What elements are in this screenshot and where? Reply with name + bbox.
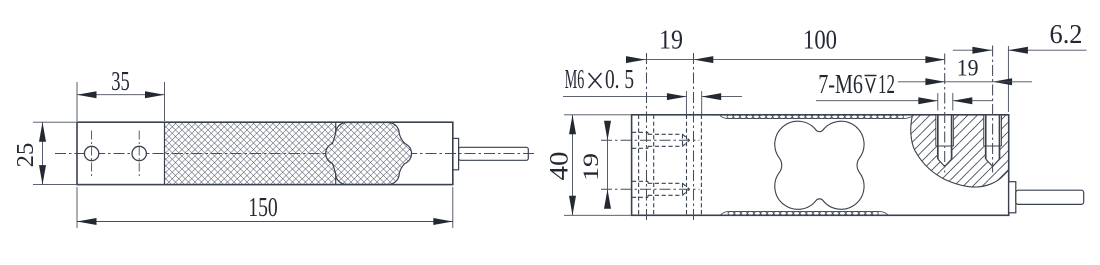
left view: centerline (55, 153, 537, 155)
right hole 2: centerline (992, 46, 994, 173)
left block vertical hole 2: dashed walls (686, 115, 688, 216)
svg-text:0. 5: 0. 5 (605, 64, 634, 94)
left block vertical hole 1: dashed walls (638, 115, 640, 216)
dimension 6.2: dim line + arrows (953, 49, 992, 51)
svg-text:12: 12 (878, 69, 895, 99)
svg-text:100: 100 (803, 24, 837, 54)
hole A vertical centerline (91, 131, 93, 177)
dimension 25: dim line + arrows (42, 122, 44, 184)
svg-text:40: 40 (544, 152, 573, 181)
svg-text:6.2: 6.2 (1050, 19, 1083, 49)
top serrated strip scallops (727, 115, 904, 119)
dimension 19 vertical: dim line + outside arrows (607, 122, 609, 208)
left view: cable collar (453, 138, 459, 169)
right view cable (1016, 190, 1084, 204)
right hole 1: centerline (944, 54, 946, 173)
upper horizontal tapped hole (hidden) (632, 132, 690, 148)
dimension 19/100 top row: dim line (626, 59, 945, 61)
lower horizontal tapped hole (hidden) (632, 181, 690, 197)
thread depth symbol (865, 75, 877, 77)
dimension 19 right: dim line (945, 81, 993, 83)
right hole 1: threaded blind hole (936, 115, 954, 167)
M6 dim extension lines (685, 91, 687, 114)
left view: cable (459, 147, 529, 160)
top serrated strip boundary (720, 115, 914, 118)
dimension 40: extension lines (564, 114, 631, 116)
bottom serrated strip boundary (721, 211, 889, 214)
left view: body outline (77, 122, 453, 184)
dimension 25: extension lines (33, 121, 76, 123)
right view cable collar (1009, 182, 1016, 213)
svg-text:19: 19 (578, 153, 603, 181)
svg-text:7-M6: 7-M6 (818, 69, 863, 99)
lower horizontal hole centerline (601, 188, 700, 190)
svg-text:19: 19 (957, 56, 979, 81)
dimension 19 top: arrows (626, 56, 646, 63)
bottom serrated strip scallops (728, 212, 878, 216)
dimension 100: arrow (925, 56, 945, 63)
svg-text:M6: M6 (565, 64, 585, 94)
leader 7-M6: line + arrow (898, 81, 945, 83)
hole A (84, 146, 98, 160)
right hole 2: threaded blind hole (984, 115, 1002, 167)
right view: hatched corner region (911, 115, 1009, 187)
dimension 150: extension lines (76, 187, 78, 228)
svg-text:19: 19 (659, 24, 683, 54)
left view: clover blob (hatched) (326, 123, 412, 185)
dimension 35: extension lines (76, 82, 78, 121)
label M6x0.5 leader line + arrows (563, 96, 686, 98)
left view: hatch end line below blob (335, 174, 337, 184)
left block vertical hole 2: centerline (693, 53, 695, 222)
left view: hatch end line above blob (335, 122, 337, 133)
left block vertical hole 1: centerline (646, 53, 648, 222)
upper horizontal hole centerline (601, 139, 700, 141)
quatrefoil cutout (775, 121, 864, 209)
dia 6 row: extension lines (937, 93, 939, 111)
dia 6 row: line + arrows (816, 100, 938, 102)
dimension 150: dim line + arrows (77, 221, 453, 223)
extension line body right edge (for 6.2) (1007, 46, 1009, 112)
svg-text:25: 25 (13, 143, 39, 168)
hole B vertical centerline (138, 131, 140, 177)
dimension 35: dim line + arrows (77, 94, 165, 96)
left view: crosshatch band (165, 122, 336, 184)
svg-text:35: 35 (111, 66, 130, 96)
dimension 40: dim line + arrows (572, 115, 574, 216)
right view: body outline (632, 115, 1009, 216)
hole B (132, 146, 146, 160)
svg-text:150: 150 (248, 192, 278, 222)
